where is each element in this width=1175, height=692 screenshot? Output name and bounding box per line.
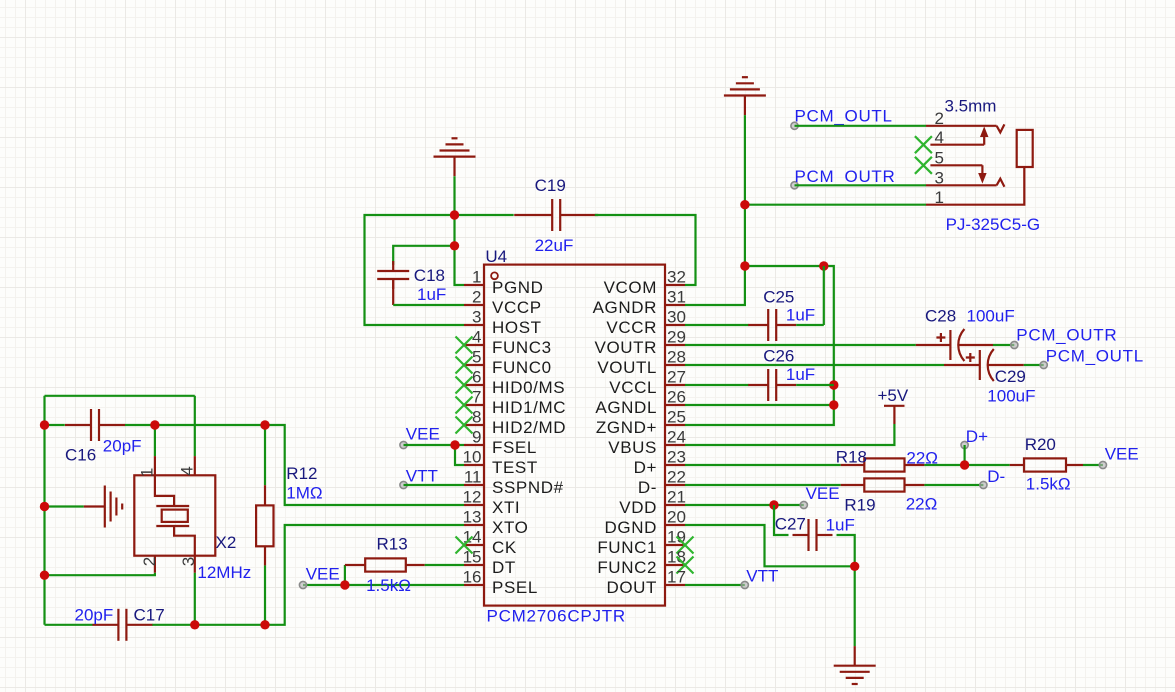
wire D+ drop xyxy=(963,445,965,465)
net stub PCM_OUTL (right) xyxy=(1040,361,1047,368)
svg-text:22: 22 xyxy=(667,468,686,487)
svg-text:2: 2 xyxy=(140,557,159,566)
U4 pin 10 (TEST) xyxy=(463,448,538,477)
svg-text:3: 3 xyxy=(179,557,198,566)
wire VCCR to C25 xyxy=(685,324,749,326)
R19 left lead xyxy=(841,484,865,486)
U4 pin 18 (FUNC2) xyxy=(597,548,693,577)
net stub PCM_OUTL (left) xyxy=(791,122,798,129)
capacitor C25 xyxy=(748,309,796,341)
svg-text:C25: C25 xyxy=(763,288,794,307)
svg-text:ZGND+: ZGND+ xyxy=(596,418,657,437)
svg-text:20: 20 xyxy=(667,508,686,527)
svg-text:32: 32 xyxy=(667,268,686,287)
wire VEE to FSEL/TEST xyxy=(404,445,465,465)
net stub VTT (pin11) xyxy=(400,481,407,488)
net stub VEE (pin16) xyxy=(299,581,306,588)
net stub VTT (pin17) xyxy=(741,581,748,588)
svg-text:2: 2 xyxy=(935,109,944,128)
svg-text:5: 5 xyxy=(472,348,481,367)
svg-text:23: 23 xyxy=(667,448,686,467)
U4 pin 30 (VCCR) xyxy=(606,308,686,337)
junction D+ / R18-R20 row xyxy=(960,460,969,469)
wire ground down to AGNDR (pin31) xyxy=(685,115,745,305)
svg-text:PJ-325C5-G: PJ-325C5-G xyxy=(946,215,1040,234)
C18 bottom lead to pin2 row xyxy=(392,279,394,305)
wire R18 to R20 xyxy=(924,464,1009,466)
net stub VEE (right) xyxy=(1099,461,1106,468)
wire bottom rail to XTO xyxy=(152,525,464,625)
svg-text:HID1/MC: HID1/MC xyxy=(492,398,566,417)
wire VCCL to C26 xyxy=(685,384,749,386)
U4 pin 9 (FSEL) xyxy=(464,428,537,457)
wire C26 right xyxy=(796,384,834,386)
R12 bottom lead xyxy=(264,546,266,565)
net stub VEE (pin21) xyxy=(800,501,807,508)
R19 right lead xyxy=(905,484,925,486)
U4 pin 28 (VOUTL) xyxy=(597,348,686,377)
wire crystal pin4 drop xyxy=(194,396,196,456)
U4 pin 5 (FUNC0) xyxy=(456,348,552,377)
svg-text:8: 8 xyxy=(472,408,481,427)
svg-text:100uF: 100uF xyxy=(967,307,1015,326)
svg-text:1uF: 1uF xyxy=(786,306,815,325)
svg-text:1: 1 xyxy=(472,268,481,287)
svg-text:XTO: XTO xyxy=(492,518,528,537)
resistor R13 xyxy=(365,558,406,571)
svg-text:25: 25 xyxy=(667,408,686,427)
U4 pin 3 (HOST) xyxy=(464,308,542,337)
wire AGNDL (pin26) xyxy=(685,404,834,406)
U4 pin 11 (SSPND#) xyxy=(464,468,564,497)
net stub D+ xyxy=(961,441,968,448)
wire C18 to VCCP (pin2) xyxy=(393,304,464,306)
svg-text:D+: D+ xyxy=(966,427,988,446)
wire ground row left xyxy=(45,505,84,507)
U4 pin 23 (D+) xyxy=(634,448,686,477)
wire VOUTL (pin28) to C29 xyxy=(685,364,944,366)
svg-text:3.5mm: 3.5mm xyxy=(945,97,997,116)
capacitor C16 xyxy=(65,409,125,441)
wire D+ (pin23) to R18 xyxy=(685,464,841,466)
svg-text:C27: C27 xyxy=(775,515,806,534)
U4 pin1 indicator circle xyxy=(491,272,498,279)
wire R20 to VEE xyxy=(1083,464,1103,466)
svg-text:HOST: HOST xyxy=(492,318,542,337)
wire PCM_OUTR to jack pin3 xyxy=(795,184,927,186)
svg-text:C17: C17 xyxy=(134,605,165,624)
svg-text:24: 24 xyxy=(667,428,686,447)
svg-text:10: 10 xyxy=(463,448,482,467)
svg-text:12MHz: 12MHz xyxy=(197,563,251,582)
svg-text:1.5kΩ: 1.5kΩ xyxy=(1026,475,1071,494)
connector J (3.5mm jack PJ-325C5-G) xyxy=(926,124,1033,204)
svg-text:29: 29 xyxy=(667,328,686,347)
power flag +5V xyxy=(884,406,905,424)
wire C27 left drop xyxy=(774,505,789,535)
svg-text:PCM_OUTR: PCM_OUTR xyxy=(795,167,896,186)
junction jack pin1 / gnd rail xyxy=(740,200,749,209)
wire VDD (pin21) to VEE xyxy=(685,504,804,506)
junction left rail / pin2 row xyxy=(40,571,49,580)
U4 pin 26 (AGNDL) xyxy=(595,388,686,417)
svg-text:20pF: 20pF xyxy=(75,605,114,624)
junction gnd rail mid xyxy=(740,261,749,270)
svg-text:FUNC1: FUNC1 xyxy=(597,538,657,557)
wire bottom rail left of C17 xyxy=(45,624,93,626)
ground (bottom) xyxy=(834,646,876,684)
U4 pin 17 (DOUT) xyxy=(606,568,685,597)
capacitor C29 (polarized) xyxy=(944,349,1024,381)
svg-text:R20: R20 xyxy=(1025,435,1056,454)
svg-text:DOUT: DOUT xyxy=(606,578,657,597)
wire D- (pin22) to R19 xyxy=(685,484,841,486)
junction ground / C19 row xyxy=(450,210,459,219)
svg-text:VTT: VTT xyxy=(746,567,778,586)
wire C16 left xyxy=(45,424,65,426)
svg-text:1: 1 xyxy=(935,188,944,207)
U4 pin 24 (VBUS) xyxy=(608,428,686,457)
jack switch arrow (up) xyxy=(981,128,988,137)
capacitor C26 xyxy=(748,369,796,401)
svg-text:21: 21 xyxy=(667,488,686,507)
wire PCM_OUTL to jack pin2 xyxy=(795,125,927,127)
R20 right lead xyxy=(1066,464,1083,466)
wire C19 left xyxy=(455,214,514,216)
svg-text:17: 17 xyxy=(667,568,686,587)
svg-text:VTT: VTT xyxy=(406,467,438,486)
R13 left lead xyxy=(345,564,365,566)
svg-text:22Ω: 22Ω xyxy=(906,449,938,468)
svg-text:3: 3 xyxy=(472,308,481,327)
wire DGND (pin20) path xyxy=(685,525,855,566)
U4 pin 32 (VCOM) xyxy=(604,268,686,297)
wire C28 to PCM_OUTR xyxy=(993,344,1014,346)
junction C16 row / R12 top xyxy=(260,420,269,429)
U4 pin 20 (DGND) xyxy=(605,508,686,537)
svg-text:20pF: 20pF xyxy=(103,437,142,456)
junction C18 branch xyxy=(450,241,459,250)
wire VTT to SSPND# xyxy=(404,484,465,486)
svg-text:D-: D- xyxy=(987,467,1005,486)
junction VEE / R13 xyxy=(340,580,349,589)
wire R12 top xyxy=(264,425,266,485)
svg-text:VCOM: VCOM xyxy=(604,278,657,297)
U4 pin 6 (HID0/MS) xyxy=(456,368,566,397)
net stub PCM_OUTR (left) xyxy=(791,182,798,189)
U4 pin 21 (VDD) xyxy=(619,488,686,517)
svg-text:13: 13 xyxy=(463,508,482,527)
junction gnd column / C26 xyxy=(829,380,838,389)
junction bottom rail / R12 bottom xyxy=(260,620,269,629)
R18 right lead xyxy=(905,464,925,466)
wire C19 right to VCOM (pin32) xyxy=(595,215,696,285)
svg-text:22Ω: 22Ω xyxy=(906,495,938,514)
wire HOST loop (pin3) xyxy=(365,215,465,325)
svg-text:R18: R18 xyxy=(836,448,867,467)
jack switch arrow (down) xyxy=(979,174,986,183)
svg-text:FUNC3: FUNC3 xyxy=(492,338,552,357)
U4 pin 2 (VCCP) xyxy=(464,288,542,317)
junction DGND / C27 / gnd xyxy=(850,562,859,571)
wire C27 right to gnd xyxy=(837,535,855,646)
resistor R19 xyxy=(864,478,904,491)
ground (left of crystal) xyxy=(84,486,122,528)
svg-text:X2: X2 xyxy=(216,533,237,552)
svg-text:VEE: VEE xyxy=(806,484,840,503)
svg-text:R13: R13 xyxy=(377,534,408,553)
wire top rail xyxy=(45,395,195,397)
svg-text:16: 16 xyxy=(463,568,482,587)
U4 pin 13 (XTO) xyxy=(463,508,529,537)
svg-text:PCM2706CPJTR: PCM2706CPJTR xyxy=(487,607,626,626)
junction gnd column / AGNDL xyxy=(829,400,838,409)
resistor R18 xyxy=(864,458,904,471)
svg-text:27: 27 xyxy=(667,368,686,387)
svg-text:VOUTR: VOUTR xyxy=(595,338,658,357)
svg-text:11: 11 xyxy=(464,468,482,487)
svg-text:15: 15 xyxy=(463,548,482,567)
svg-text:7: 7 xyxy=(472,388,481,407)
svg-text:1uF: 1uF xyxy=(826,516,855,535)
wire VEE to PSEL (pin16) xyxy=(303,584,464,586)
svg-text:1uF: 1uF xyxy=(417,285,446,304)
crystal X2 xyxy=(134,456,215,573)
svg-text:HID2/MD: HID2/MD xyxy=(492,418,566,437)
wire R13 to DT (pin15) xyxy=(425,564,464,566)
ground (above C19) xyxy=(434,138,476,176)
U4 pin 7 (HID1/MC) xyxy=(456,388,567,417)
capacitor C18 xyxy=(377,261,409,289)
wire jack pin1 row xyxy=(745,204,926,206)
svg-text:PSEL: PSEL xyxy=(492,578,538,597)
svg-text:D+: D+ xyxy=(634,458,657,477)
svg-text:6: 6 xyxy=(472,368,481,387)
svg-text:FUNC0: FUNC0 xyxy=(492,358,552,377)
svg-text:VCCL: VCCL xyxy=(609,378,657,397)
svg-text:R19: R19 xyxy=(844,495,875,514)
junction C16 / crystal pin1 xyxy=(150,420,159,429)
svg-text:XTI: XTI xyxy=(492,498,520,517)
svg-text:FSEL: FSEL xyxy=(492,438,537,457)
svg-text:1.5kΩ: 1.5kΩ xyxy=(366,576,411,595)
svg-text:3: 3 xyxy=(935,168,944,187)
svg-text:1uF: 1uF xyxy=(786,365,815,384)
resistor R20 xyxy=(1024,458,1066,471)
svg-text:D-: D- xyxy=(638,478,657,497)
svg-text:VCCR: VCCR xyxy=(606,318,657,337)
junction left rail / ground xyxy=(40,502,49,511)
capacitor C28 (polarized) xyxy=(916,329,993,361)
U4 pin 14 (CK) xyxy=(456,528,517,557)
wire left rail xyxy=(43,396,45,625)
svg-text:22uF: 22uF xyxy=(535,236,574,255)
svg-text:4: 4 xyxy=(472,328,481,347)
svg-text:4: 4 xyxy=(935,128,944,147)
svg-text:AGNDR: AGNDR xyxy=(593,298,657,317)
wire C29 to PCM_OUTL xyxy=(1024,364,1044,366)
U4 pin 8 (HID2/MD) xyxy=(456,408,567,437)
R12 top lead xyxy=(264,485,266,505)
U4 pin 1 (PGND) xyxy=(464,268,544,297)
U4 pin 4 (FUNC3) xyxy=(456,328,552,357)
R18 left lead xyxy=(841,464,865,466)
net stub PCM_OUTR (right) xyxy=(1011,341,1018,348)
capacitor C17 xyxy=(92,609,152,641)
svg-text:2: 2 xyxy=(472,288,481,307)
svg-text:28: 28 xyxy=(667,348,686,367)
svg-text:9: 9 xyxy=(472,428,481,447)
svg-text:12: 12 xyxy=(463,488,482,507)
wire crystal pin3 down xyxy=(194,573,196,625)
svg-text:VEE: VEE xyxy=(306,565,340,584)
U4 pin 19 (FUNC1) xyxy=(597,528,693,557)
junction VEE pins 9/10 xyxy=(450,440,459,449)
svg-text:1MΩ: 1MΩ xyxy=(286,483,322,502)
svg-text:CK: CK xyxy=(492,538,517,557)
wire ground to PGND (pin1) xyxy=(455,176,465,285)
svg-text:TEST: TEST xyxy=(492,458,538,477)
svg-text:C26: C26 xyxy=(763,347,794,366)
svg-text:U4: U4 xyxy=(485,247,507,266)
svg-text:5: 5 xyxy=(935,148,944,167)
svg-text:VOUTL: VOUTL xyxy=(597,358,657,377)
junction C25 riser xyxy=(819,261,828,270)
svg-text:26: 26 xyxy=(667,388,686,407)
svg-text:4: 4 xyxy=(177,466,196,475)
net stub D- xyxy=(980,481,987,488)
capacitor C27 xyxy=(793,519,833,551)
wire C16 right to XTI xyxy=(125,425,464,505)
wire VOUTR (pin29) to C28 xyxy=(685,344,916,346)
U4 pin 31 (AGNDR) xyxy=(593,288,686,317)
U4 pin 12 (XTI) xyxy=(463,488,521,517)
svg-text:AGNDL: AGNDL xyxy=(595,398,657,417)
resistor R12 xyxy=(256,505,273,546)
wire gnd to C25 column xyxy=(685,266,834,425)
wire C18 top branch xyxy=(393,246,454,265)
svg-text:VBUS: VBUS xyxy=(608,438,657,457)
svg-text:PCM_OUTR: PCM_OUTR xyxy=(1016,326,1117,345)
svg-text:30: 30 xyxy=(667,308,686,327)
U4 pin 15 (DT) xyxy=(463,548,516,577)
svg-text:VEE: VEE xyxy=(1105,445,1139,464)
junction bottom rail / crystal pin3 xyxy=(190,620,199,629)
svg-text:PCM_OUTL: PCM_OUTL xyxy=(1046,347,1144,366)
svg-text:31: 31 xyxy=(667,288,686,307)
svg-text:C29: C29 xyxy=(995,367,1026,386)
svg-text:VEE: VEE xyxy=(406,425,440,444)
U4 pin 22 (D-) xyxy=(638,468,686,497)
svg-text:C16: C16 xyxy=(65,446,96,465)
svg-text:DGND: DGND xyxy=(605,518,657,537)
wire C25 right xyxy=(796,324,824,326)
svg-text:VCCP: VCCP xyxy=(492,298,542,317)
wire VBUS (pin24) to +5V xyxy=(685,424,894,445)
svg-text:FUNC2: FUNC2 xyxy=(597,558,657,577)
wire DOUT (pin17) to VTT xyxy=(685,584,745,586)
svg-text:PGND: PGND xyxy=(492,278,544,297)
svg-text:C19: C19 xyxy=(535,176,566,195)
ground (top right) xyxy=(724,77,766,115)
junction VDD / C27 xyxy=(769,500,778,509)
op-amp/IC U4 body xyxy=(484,265,665,606)
wire crystal pin1 up xyxy=(154,425,156,456)
wire R12 bottom xyxy=(264,565,266,624)
R20 left lead xyxy=(1010,464,1024,466)
wire R13 left drop xyxy=(344,565,346,585)
junction left rail / C16 xyxy=(40,420,49,429)
R13 right lead xyxy=(406,564,425,566)
U4 pin 27 (VCCL) xyxy=(609,368,686,397)
svg-text:PCM_OUTL: PCM_OUTL xyxy=(795,106,893,125)
U4 pin 25 (ZGND+) xyxy=(596,408,686,437)
svg-text:1: 1 xyxy=(138,468,157,477)
U4 pin 29 (VOUTR) xyxy=(595,328,686,357)
svg-text:C18: C18 xyxy=(414,266,445,285)
svg-text:SSPND#: SSPND# xyxy=(492,478,564,497)
no-connect X jack pin 4 xyxy=(915,136,932,153)
svg-text:HID0/MS: HID0/MS xyxy=(492,378,565,397)
wire crystal pin2 row xyxy=(45,573,155,576)
svg-text:100uF: 100uF xyxy=(987,386,1035,405)
wire R19 to D- xyxy=(924,484,983,486)
svg-text:VDD: VDD xyxy=(619,498,657,517)
wire C25 riser xyxy=(823,266,825,325)
net stub VEE (pin9) xyxy=(400,441,407,448)
svg-text:DT: DT xyxy=(492,558,516,577)
U4 pin 16 (PSEL) xyxy=(463,568,538,597)
svg-text:C28: C28 xyxy=(925,307,956,326)
capacitor C19 xyxy=(514,199,598,231)
svg-text:R12: R12 xyxy=(286,464,317,483)
no-connect X jack pin 5 xyxy=(915,157,932,174)
svg-text:+5V: +5V xyxy=(878,386,909,405)
